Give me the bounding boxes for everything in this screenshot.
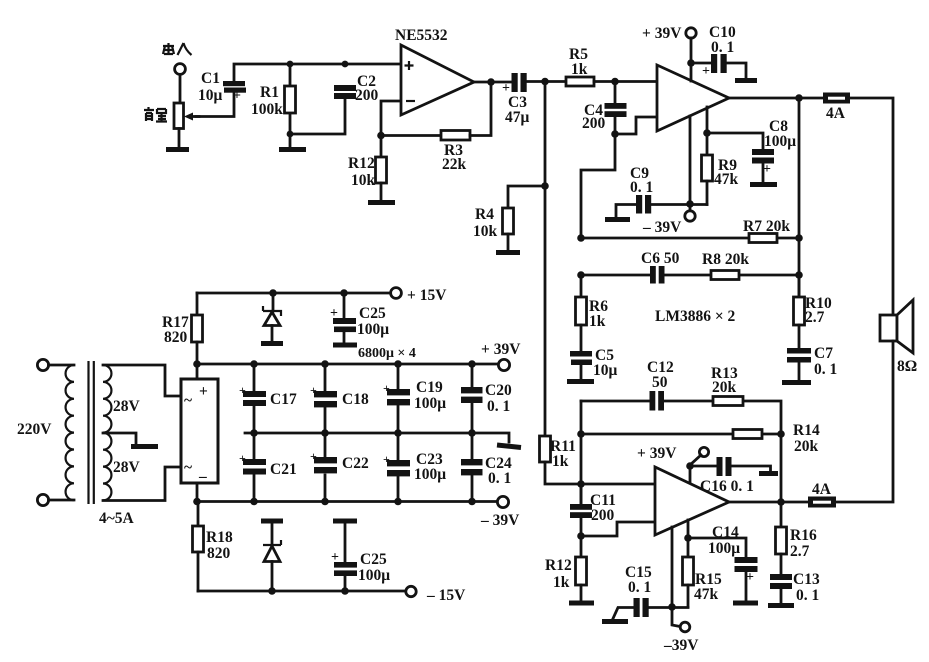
capacitor C19 xyxy=(383,364,410,433)
junction -39V C22 xyxy=(321,498,329,506)
resistor R9 xyxy=(702,155,713,205)
label 音量 (volume) xyxy=(144,107,167,122)
resistor R10 xyxy=(794,297,805,348)
wire terminal to pot xyxy=(179,75,182,103)
svg-text:R14: R14 xyxy=(793,422,820,439)
svg-text:+ 39V: + 39V xyxy=(642,25,682,42)
svg-text:0. 1: 0. 1 xyxy=(628,579,651,596)
svg-text:+ 39V: + 39V xyxy=(637,445,677,462)
wire C15 row xyxy=(613,608,688,619)
capacitor C21 xyxy=(239,433,266,502)
junction C16 tap xyxy=(686,462,694,470)
wire opamp inverting input xyxy=(381,101,401,157)
wire amp2 output xyxy=(729,501,808,504)
resistor R12 (amp2) xyxy=(576,536,587,601)
svg-text:100μ: 100μ xyxy=(708,540,740,557)
svg-text:– 39V: – 39V xyxy=(642,219,682,236)
wire V+ pin amp2 xyxy=(689,466,692,484)
ground (R12 amp2) xyxy=(569,601,594,606)
svg-text:C21: C21 xyxy=(270,461,297,478)
svg-text:–39V: –39V xyxy=(663,637,699,654)
label C5 10μ xyxy=(593,347,618,379)
svg-text:200: 200 xyxy=(591,507,615,524)
ground (C5) xyxy=(567,379,594,384)
wire bridge + output xyxy=(196,364,199,379)
wire center tap xyxy=(103,433,136,444)
capacitor C5 xyxy=(570,351,592,379)
capacitor C7 xyxy=(787,348,811,381)
svg-text:R8 20k: R8 20k xyxy=(702,251,749,268)
junction bridge+/R17 xyxy=(193,360,201,368)
wire signal drop (C3 node down to R11) xyxy=(544,82,547,437)
terminal -39V (amp1) xyxy=(685,211,695,221)
op-amp U1 NE5532 xyxy=(401,45,474,115)
ground (C14) xyxy=(733,601,758,606)
bridge rectifier xyxy=(181,379,218,485)
junction -39V R18 xyxy=(193,498,201,506)
svg-text:20k: 20k xyxy=(712,379,737,396)
ground (C10) xyxy=(735,78,757,83)
wire tap to C14 xyxy=(688,538,746,557)
svg-text:0. 1: 0. 1 xyxy=(487,398,510,415)
label C25 100μ (lower) xyxy=(358,551,390,584)
ground (C8) xyxy=(750,182,777,187)
wire tap to C16 xyxy=(690,465,717,468)
ground (C25 upper) xyxy=(333,343,357,348)
junction +39V C20 xyxy=(468,360,476,368)
wire +15V rail xyxy=(197,292,391,295)
svg-text:10k: 10k xyxy=(473,223,498,240)
resistor R12 xyxy=(376,157,387,200)
capacitor C22 xyxy=(310,433,337,501)
potentiometer (volume) body xyxy=(174,103,184,129)
svg-text:2.7: 2.7 xyxy=(790,543,810,560)
junction zener1 top xyxy=(269,289,277,297)
capacitor C20 xyxy=(461,364,483,433)
svg-text:47k: 47k xyxy=(694,586,719,603)
wire speaker to fuse2 rail xyxy=(837,341,893,502)
junction R4 tap xyxy=(541,182,549,190)
capacitor C13 xyxy=(770,574,792,604)
junction 0V C17 xyxy=(250,429,258,437)
label R6 1k xyxy=(589,298,608,330)
junction +39V C18 xyxy=(321,360,329,368)
wire secondary top to bridge xyxy=(103,365,181,396)
terminal mains bottom xyxy=(37,494,48,505)
svg-text:+ 15V: + 15V xyxy=(407,287,447,304)
svg-text:C13: C13 xyxy=(793,571,820,588)
junction -39V C21 xyxy=(250,498,258,506)
capacitor C2 xyxy=(334,85,356,99)
wire V- pin amp1 to -39V xyxy=(689,116,692,211)
svg-text:C17: C17 xyxy=(270,391,297,408)
resistor R18 xyxy=(193,502,204,592)
fuse F1 4A xyxy=(823,93,850,104)
label C7 0.1 xyxy=(814,345,837,378)
svg-text:C22: C22 xyxy=(342,455,369,472)
wire amp2 mute pin xyxy=(687,520,690,538)
svg-text:C20: C20 xyxy=(485,382,512,399)
svg-text:0. 1: 0. 1 xyxy=(796,587,819,604)
junction rail1 left xyxy=(577,234,585,242)
label R17 820 xyxy=(162,314,189,346)
svg-text:20k: 20k xyxy=(794,438,819,455)
input terminal xyxy=(175,64,186,75)
svg-text:4A: 4A xyxy=(812,481,832,498)
label C13 0.1 xyxy=(793,571,820,604)
ground (C13) xyxy=(768,603,794,608)
transformer T1 secondary winding top 28V xyxy=(103,365,111,433)
svg-text:0. 1: 0. 1 xyxy=(488,470,511,487)
label C8 100μ xyxy=(764,118,796,150)
wire C16 to ground xyxy=(732,466,771,471)
svg-text:820: 820 xyxy=(164,329,188,346)
svg-text:200: 200 xyxy=(582,115,606,132)
svg-text:10μ: 10μ xyxy=(198,87,223,104)
svg-text:4~5A: 4~5A xyxy=(99,510,135,527)
svg-text:+: + xyxy=(199,383,208,400)
label R16 2.7 xyxy=(790,527,817,560)
junction C25b bottom xyxy=(341,587,349,595)
svg-text:R7 20k: R7 20k xyxy=(743,218,790,235)
svg-text:R12: R12 xyxy=(348,155,375,172)
svg-text:LM3886 × 2: LM3886 × 2 xyxy=(655,308,736,325)
capacitor C9 xyxy=(636,195,651,214)
capacitor C25 (upper) xyxy=(330,293,356,343)
capacitor C4 xyxy=(605,82,627,135)
svg-text:28V: 28V xyxy=(113,398,141,415)
svg-text:0. 1: 0. 1 xyxy=(814,361,837,378)
resistor R11 xyxy=(540,436,582,484)
junction -39V C24 xyxy=(468,498,476,506)
wire C3 to R5 xyxy=(526,80,566,83)
ground (0V rail) xyxy=(497,445,521,448)
wire feedback rail1 xyxy=(581,237,799,240)
wire C8 branch xyxy=(707,133,763,149)
ground (C9) xyxy=(605,217,630,222)
svg-text:22k: 22k xyxy=(442,156,467,173)
wire wiper to C1 xyxy=(196,92,234,117)
wire C10 to ground xyxy=(727,63,746,79)
label R12 10k xyxy=(348,155,376,189)
terminal -39V (amp2) xyxy=(680,622,690,632)
junction R14 right xyxy=(777,430,785,438)
junction 0V C19 xyxy=(394,429,402,437)
wire mains top to primary xyxy=(49,364,75,367)
terminal -15V xyxy=(406,586,416,596)
svg-text:C6 50: C6 50 xyxy=(641,250,680,267)
svg-text:R4: R4 xyxy=(475,206,494,223)
wire +39V rail xyxy=(197,363,498,366)
op-amp U3 LM3886 second xyxy=(655,467,729,535)
label R10 2.7 xyxy=(805,295,832,326)
label C19 100μ xyxy=(414,379,446,412)
ground (pot) xyxy=(166,147,189,152)
svg-text:100μ: 100μ xyxy=(414,466,446,483)
resistor R8 xyxy=(711,271,739,280)
svg-text:~: ~ xyxy=(184,392,192,409)
capacitor C23 xyxy=(383,433,410,501)
capacitor C16 xyxy=(717,457,732,476)
junction C11 bottom xyxy=(577,532,585,540)
wire fuse1 to speaker rail xyxy=(850,98,893,315)
resistor R16 xyxy=(776,502,787,574)
junction +39V C17 xyxy=(250,360,258,368)
svg-text:C18: C18 xyxy=(342,391,369,408)
svg-text:200: 200 xyxy=(355,87,379,104)
wire V+ pin amp1 xyxy=(690,38,693,81)
ground (R1) xyxy=(279,134,306,150)
svg-text:50: 50 xyxy=(652,374,668,391)
wire mute pin amp1 down xyxy=(706,107,709,155)
wire R1 bottom to C2 bottom xyxy=(290,99,345,134)
wire R5 to LM3886 + input xyxy=(594,80,657,83)
junction C10 tap xyxy=(687,59,695,67)
svg-text:100k: 100k xyxy=(251,101,283,118)
capacitor C18 xyxy=(310,364,337,433)
svg-text:C14: C14 xyxy=(712,524,739,541)
junction amp2 output node xyxy=(777,498,785,506)
wire C4 node to feedback rails xyxy=(581,134,615,238)
svg-text:0. 1: 0. 1 xyxy=(630,179,653,196)
svg-text:1k: 1k xyxy=(552,453,569,470)
terminal +39V (amp1) xyxy=(686,28,696,38)
label C15 0.1 xyxy=(625,564,652,596)
wire tap to C10 xyxy=(691,62,712,65)
diode D2 zener 15V xyxy=(263,523,281,591)
label C2 200 xyxy=(355,73,379,104)
svg-text:4A: 4A xyxy=(826,105,846,122)
capacitor C1 xyxy=(223,81,246,104)
label C9 0.1 xyxy=(630,165,653,196)
junction 0V C20 xyxy=(468,429,476,437)
potentiometer wiper arrow xyxy=(184,113,199,121)
svg-text:100μ: 100μ xyxy=(358,567,390,584)
terminal +39V xyxy=(498,359,509,370)
svg-text:– 39V: – 39V xyxy=(480,512,520,529)
label C24 0.1 xyxy=(485,455,512,487)
svg-text:10k: 10k xyxy=(351,172,376,189)
svg-text:C19: C19 xyxy=(416,379,443,396)
wire C4 node to inverting input xyxy=(615,117,657,134)
wire bridge - output xyxy=(196,483,199,502)
junction NE5532 output xyxy=(487,78,495,86)
junction R7 right xyxy=(795,234,803,242)
fuse F2 4A xyxy=(808,497,836,508)
svg-text:6800μ × 4: 6800μ × 4 xyxy=(358,346,416,361)
junction 0V C18 xyxy=(321,429,329,437)
label R4 10k xyxy=(473,206,498,240)
svg-text:C25: C25 xyxy=(359,305,386,322)
svg-text:+: + xyxy=(233,89,241,104)
svg-text:NE5532: NE5532 xyxy=(395,27,448,44)
transformer T1 primary winding xyxy=(66,365,74,500)
wire pot to ground xyxy=(178,129,181,148)
label R1 100k xyxy=(251,84,283,118)
resistor R15 xyxy=(683,538,694,607)
wire R14 rail xyxy=(581,433,781,436)
svg-text:1k: 1k xyxy=(571,61,588,78)
svg-text:– 15V: – 15V xyxy=(426,587,466,604)
svg-text:1k: 1k xyxy=(553,574,570,591)
node A junction (R12/R3/inv) xyxy=(377,132,385,140)
junction C15 row xyxy=(668,603,676,611)
label R12 1k (amp2) xyxy=(545,557,572,591)
capacitor C11 xyxy=(570,484,592,536)
svg-text:10μ: 10μ xyxy=(593,362,618,379)
svg-text:C7: C7 xyxy=(814,345,833,362)
wire mains bottom to primary xyxy=(49,499,75,502)
wire feedback rail2 xyxy=(581,274,799,277)
svg-text:47μ: 47μ xyxy=(505,109,530,126)
label 输入 (input) xyxy=(163,43,192,55)
pin - of NE5532 xyxy=(406,100,415,102)
wire 0V mid rail xyxy=(245,433,509,442)
svg-text:820: 820 xyxy=(207,545,231,562)
ground (C7) xyxy=(782,380,811,385)
transformer T1 core xyxy=(89,361,94,504)
ground (R12) xyxy=(368,200,395,205)
terminal mains top xyxy=(37,359,48,370)
speaker 8Ω xyxy=(880,300,913,353)
svg-text:+: + xyxy=(702,64,710,79)
capacitor C8 xyxy=(752,149,774,183)
svg-text:R16: R16 xyxy=(790,527,817,544)
label R13 20k xyxy=(711,365,738,396)
pin + of NE5532 xyxy=(405,61,414,70)
label C23 100μ xyxy=(414,451,446,483)
ground (R4) xyxy=(496,250,520,255)
label C10 0.1 xyxy=(709,24,736,56)
svg-text:R12: R12 xyxy=(545,557,572,574)
svg-text:100μ: 100μ xyxy=(357,321,389,338)
resistor R1 xyxy=(285,64,296,134)
wire output to C3 xyxy=(474,81,513,84)
junction R14 rail left xyxy=(577,430,585,438)
capacitor C24 xyxy=(461,433,483,502)
capacitor C10 xyxy=(702,54,727,79)
junction amp2 input node xyxy=(577,480,585,488)
junction C14 tap xyxy=(684,534,692,542)
capacitor C17 xyxy=(239,364,266,433)
label R9 47k xyxy=(714,157,739,188)
junction C8 tap xyxy=(703,129,711,137)
label C11 200 xyxy=(590,492,616,524)
wire R10 column xyxy=(798,275,801,297)
wire amp2 V- pin xyxy=(672,527,680,627)
wire C12 loop top xyxy=(581,401,781,502)
label C3 47μ xyxy=(505,94,530,126)
wire input node to amp2 xyxy=(581,483,655,486)
junction C3 node xyxy=(541,78,549,86)
junction R1 bottom xyxy=(287,131,294,138)
capacitor C25 (lower) xyxy=(331,523,357,591)
wire node A to R3 xyxy=(381,134,441,137)
resistor R3 xyxy=(441,131,470,141)
svg-text:8Ω: 8Ω xyxy=(897,358,917,375)
junction C4 bottom xyxy=(611,130,619,138)
ground (D2) xyxy=(261,519,283,524)
wire rails to R6 xyxy=(580,275,583,297)
resistor R5 xyxy=(566,77,594,86)
terminal -39V xyxy=(497,496,508,507)
wire secondary bottom to bridge xyxy=(103,467,181,501)
capacitor C15 xyxy=(634,598,649,617)
svg-text:47k: 47k xyxy=(714,171,739,188)
terminal +15V xyxy=(391,288,402,299)
junction +39V C19 xyxy=(394,360,402,368)
wire -15V rail xyxy=(198,590,406,593)
svg-text:1k: 1k xyxy=(589,313,606,330)
svg-text:0. 1: 0. 1 xyxy=(711,39,734,56)
label R3 22k xyxy=(442,142,467,173)
wire amp2 feedback left rail xyxy=(580,401,583,504)
junction C9/R9 on V- xyxy=(686,200,694,208)
svg-text:220V: 220V xyxy=(17,421,52,438)
wire -39V rail xyxy=(197,500,497,503)
resistor R17 xyxy=(192,293,203,364)
op-amp U2 LM3886 first xyxy=(657,65,729,131)
label C4 200 xyxy=(582,102,606,132)
capacitor C14 xyxy=(735,557,758,601)
terminal +39V (amp2) xyxy=(699,447,708,456)
junction amp1 output node xyxy=(795,94,803,102)
svg-text:R1: R1 xyxy=(260,84,279,101)
junction C4 top xyxy=(611,78,619,86)
junction C2 top xyxy=(342,61,349,68)
svg-text:100μ: 100μ xyxy=(764,133,796,150)
ground (C15) xyxy=(602,619,628,624)
svg-text:C25: C25 xyxy=(360,551,387,568)
junction -39V C23 xyxy=(394,498,402,506)
capacitor C12 xyxy=(650,391,665,411)
svg-text:+ 39V: + 39V xyxy=(481,341,521,358)
diode D1 zener 15V xyxy=(263,293,281,342)
resistor R4 xyxy=(503,208,514,251)
junction R8 right xyxy=(795,271,803,279)
resistor R7 xyxy=(749,234,777,243)
label R15 47k xyxy=(694,571,722,603)
junction R1 top xyxy=(287,61,294,68)
ground (C25 lower) xyxy=(333,519,357,524)
wire amp1 output to fuse xyxy=(729,97,823,100)
capacitor C6 xyxy=(650,266,665,284)
resistor R14 xyxy=(733,430,762,439)
label C14 100μ xyxy=(708,524,740,557)
svg-text:100μ: 100μ xyxy=(414,395,446,412)
junction zener2 bottom xyxy=(268,587,276,595)
resistor R13 xyxy=(713,397,743,406)
label C12 50 xyxy=(647,359,674,391)
wire feedback right rail xyxy=(798,98,801,297)
junction rail2 left xyxy=(577,271,585,279)
wire R4 to tap xyxy=(508,186,545,208)
label R5 1k xyxy=(569,46,588,78)
wire C9 row xyxy=(616,205,707,218)
svg-text:R18: R18 xyxy=(206,529,233,546)
capacitor C3 xyxy=(502,73,527,96)
ground (D1) xyxy=(261,341,283,346)
svg-text:2.7: 2.7 xyxy=(805,309,825,326)
junction C25a top xyxy=(340,289,348,297)
resistor R6 xyxy=(576,297,587,351)
label C25 100μ (upper) xyxy=(357,305,389,338)
wire C1 to opamp + input xyxy=(234,64,401,81)
svg-text:~: ~ xyxy=(184,459,192,476)
svg-text:–: – xyxy=(198,468,207,485)
label C1 10μ xyxy=(198,70,223,104)
label C20 0.1 xyxy=(485,382,512,415)
